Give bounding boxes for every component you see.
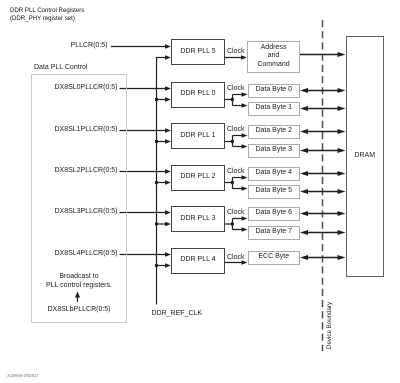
wire DX8SL2PLLCR(0:5) to DDR PLL 2 upper input [120,169,172,173]
wire DX8SL0PLLCR(0:5) to DDR PLL 0 upper input [120,86,172,90]
group box Data PLL Control [31,74,128,323]
label DX8SL4PLLCR(0:5) [54,249,117,258]
bus Data Byte 2 to DRAM (bidirectional) [300,129,346,134]
bus Data Byte 3 to DRAM (bidirectional) [300,148,346,153]
label DDR_REF_CLK [152,309,203,318]
label Clock (DDR PLL 0) [227,84,245,93]
block DDR PLL 4 [171,248,225,274]
wire DDR PLL 1 clock out with junction to Data Byte 2 and Data Byte 3 [225,133,248,148]
wire trunk to DDR PLL 4 lower input [155,263,171,267]
label DX8SL3PLLCR(0:5) [54,207,117,216]
block Data Byte 6 [248,207,301,221]
block DRAM [346,36,384,277]
block Data Byte 3 [248,144,301,158]
label broadcast note [41,273,117,290]
label PLLCR(0:5) [71,41,108,50]
figure number [7,371,39,380]
label DX8SL0PLLCR(0:5) [54,83,117,92]
bus Data Byte 7 to DRAM (bidirectional) [300,230,346,235]
label DX8SL1PLLCR(0:5) [54,125,117,134]
label DX8SLbPLLCR(0:5) [41,305,117,314]
wire trunk to DDR PLL 1 lower input [155,139,171,143]
wire DDR PLL 5 clock out to Address and Command [225,55,247,59]
label DX8SL2PLLCR(0:5) [54,166,117,175]
label Clock (DDR PLL 3) [227,208,245,217]
label Clock (DDR PLL 5) [227,47,245,56]
bus Data Byte 6 to DRAM (bidirectional) [300,211,346,216]
bus Data Byte 5 to DRAM (bidirectional) [300,189,346,194]
block Data Byte 4 [248,167,301,181]
title [10,7,84,23]
block Data Byte 5 [248,185,301,199]
wire DDR PLL 3 clock out with junction to Data Byte 6 and Data Byte 7 [225,216,248,231]
wire trunk to DDR PLL 0 lower input [155,97,171,101]
block DDR PLL 1 [171,123,225,149]
wire trunk to DDR PLL 3 lower input [155,222,171,226]
block Data Byte 7 [248,226,301,240]
label Data PLL Control [34,63,87,72]
wire trunk to DDR PLL 5 lower input [156,55,171,59]
wire DX8SL1PLLCR(0:5) to DDR PLL 1 upper input [120,128,172,132]
block ECC Byte [248,251,301,265]
label Clock (DDR PLL 1) [227,125,245,134]
block DDR PLL 5 [171,39,225,65]
label Device Boundary (rotated) [325,301,334,348]
bus Address and Command to DRAM [300,52,346,57]
block DDR PLL 0 [171,82,225,108]
wire DDR PLL 4 clock out to ECC Byte [225,260,248,264]
block Data Byte 0 [248,84,301,98]
wire DX8SL4PLLCR(0:5) to DDR PLL 4 upper input [120,252,172,256]
device boundary dashed line [322,20,324,351]
wire PLLCR(0:5) to DDR PLL 5 upper input [111,44,171,48]
broadcast up-arrow [75,292,80,303]
DDR_REF_CLK vertical trunk wire [156,58,158,305]
bus Data Byte 1 to DRAM (bidirectional) [300,106,346,111]
bus ECC Byte to DRAM (bidirectional) [300,255,346,260]
wire DDR PLL 0 clock out with junction to Data Byte 0 and Data Byte 1 [225,92,248,107]
block DDR PLL 3 [171,206,225,232]
wire DX8SL3PLLCR(0:5) to DDR PLL 3 upper input [120,210,172,214]
wire DDR PLL 2 clock out with junction to Data Byte 4 and Data Byte 5 [225,175,248,190]
wire trunk to DDR PLL 2 lower input [155,180,171,184]
bus Data Byte 4 to DRAM (bidirectional) [300,171,346,176]
block Address and Command [247,41,300,73]
bus Data Byte 0 to DRAM (bidirectional) [300,88,346,93]
label Clock (DDR PLL 2) [227,167,245,176]
label Clock (DDR PLL 4) [227,253,245,262]
block DDR PLL 2 [171,165,225,191]
block Data Byte 2 [248,125,301,139]
block Data Byte 1 [248,102,301,116]
